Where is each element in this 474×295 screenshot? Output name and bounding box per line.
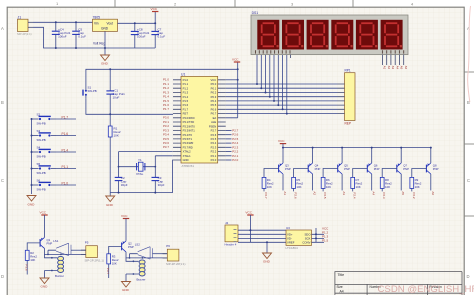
- zone letters right: [467, 26, 471, 279]
- svg-text:P0.5: P0.5: [211, 103, 217, 107]
- svg-text:P3.0/RXD: P3.0/RXD: [183, 116, 195, 120]
- svg-text:P1.7: P1.7: [62, 116, 69, 120]
- svg-text:Vout: Vout: [107, 22, 113, 26]
- wire P0.3 bus: [226, 96, 338, 98]
- svg-text:P0.3: P0.3: [211, 95, 217, 99]
- svg-text:P3.6/WR: P3.6/WR: [183, 141, 194, 145]
- svg-text:4: 4: [411, 1, 414, 6]
- svg-text:P1.1: P1.1: [62, 165, 69, 169]
- svg-text:10uF: 10uF: [113, 96, 120, 100]
- svg-text:SW-PB: SW-PB: [88, 89, 97, 93]
- net label P2.0 right of U1: [226, 158, 239, 162]
- net label P2.2 right of U1: [226, 150, 239, 154]
- transistor Q2: [122, 241, 134, 252]
- svg-text:P2.2: P2.2: [412, 192, 416, 199]
- power port VCC transistor rail: [278, 139, 286, 147]
- svg-text:P3.5/T1: P3.5/T1: [183, 137, 193, 141]
- svg-text:P2.3: P2.3: [382, 192, 386, 199]
- svg-text:7805: 7805: [93, 15, 101, 19]
- svg-text:P5: P5: [85, 241, 89, 245]
- buzzer capsule LS1: [45, 254, 65, 278]
- svg-text:P0.1: P0.1: [211, 86, 217, 90]
- svg-text:D: D: [1, 274, 4, 279]
- svg-text:C: C: [1, 178, 4, 183]
- wires header to U3: [238, 230, 286, 242]
- transistor rail wire: [283, 147, 431, 149]
- svg-text:J1: J1: [18, 15, 22, 19]
- svg-text:AT89C51: AT89C51: [182, 164, 195, 168]
- capacitor C4: [52, 21, 71, 49]
- ground symbol U3: [263, 253, 272, 259]
- zone tick right A/B: [464, 71, 474, 73]
- svg-text:XTAL1: XTAL1: [183, 154, 192, 158]
- zone tick right B/C: [464, 143, 474, 145]
- svg-text:EA: EA: [213, 116, 217, 120]
- transistor Q4: [308, 147, 320, 174]
- svg-text:SW-PB: SW-PB: [37, 187, 46, 191]
- resistor R4 base: [262, 169, 279, 192]
- wire display pin 7 drop: [282, 55, 284, 110]
- svg-text:P2.7: P2.7: [211, 129, 217, 133]
- svg-text:30pF: 30pF: [158, 183, 165, 187]
- push button S4: [31, 145, 57, 158]
- display digit pin 4 stub and net label: [395, 55, 399, 70]
- svg-text:Y1: Y1: [138, 158, 142, 162]
- svg-text:GND: GND: [106, 203, 114, 207]
- wire display pin 6 drop: [277, 55, 279, 106]
- ground rail under output caps: [105, 47, 155, 49]
- wire J1 pin2 to ground rail: [33, 27, 105, 48]
- digit cell 2: [282, 20, 304, 50]
- svg-text:P1.2: P1.2: [183, 86, 189, 90]
- svg-text:Volt Reg: Volt Reg: [93, 42, 105, 46]
- wire display pin 5 drop: [273, 55, 275, 101]
- display digit pin 1 stub and net label: [382, 55, 386, 70]
- power port VCC buzzer block 2: [121, 214, 129, 241]
- svg-text:10K: 10K: [385, 185, 390, 189]
- svg-text:S3: S3: [37, 129, 41, 133]
- svg-text:P3.7: P3.7: [163, 145, 169, 149]
- svg-text:P0.0: P0.0: [211, 82, 217, 86]
- svg-text:PNP: PNP: [374, 167, 380, 171]
- svg-text:P0.7: P0.7: [211, 112, 217, 116]
- transistor Q8: [426, 147, 438, 174]
- ground symbol crystal: [109, 193, 111, 196]
- wire P0.7 bus: [226, 113, 338, 115]
- wire and net label P1.0: [56, 182, 76, 186]
- 7-segment display DS1: [251, 11, 408, 55]
- U3 right wires: [312, 228, 325, 242]
- svg-text:VCC: VCC: [245, 211, 252, 215]
- digit cell 4: [331, 20, 353, 50]
- svg-text:1: 1: [56, 1, 59, 6]
- svg-text:U1: U1: [181, 72, 185, 76]
- wire P0.5 bus: [226, 104, 338, 106]
- capacitor C3: [152, 167, 165, 193]
- wire U1 VCC pin to VCC port: [226, 79, 238, 81]
- svg-text:P3.7: P3.7: [106, 268, 110, 275]
- crystal ground rail: [110, 192, 172, 194]
- svg-text:10K: 10K: [114, 134, 119, 138]
- svg-text:A2: A2: [313, 191, 317, 195]
- push button S3: [31, 129, 57, 142]
- svg-text:RST: RST: [183, 112, 189, 116]
- svg-text:RP1: RP1: [345, 69, 351, 73]
- zone numbers top: [56, 1, 414, 6]
- buttons ground bus: [31, 119, 33, 194]
- wire display pin 8 drop: [286, 55, 288, 114]
- svg-text:30pF: 30pF: [121, 183, 128, 187]
- svg-text:PSEN: PSEN: [209, 124, 216, 128]
- display bottom pin labels left group: [256, 50, 291, 53]
- power port VCC regulator output: [151, 7, 159, 23]
- svg-text:P1.0: P1.0: [62, 182, 69, 186]
- svg-text:VCC: VCC: [278, 139, 285, 143]
- svg-text:Buzzer: Buzzer: [55, 274, 64, 278]
- svg-text:P3.6: P3.6: [24, 264, 28, 271]
- wire P0.0 bus: [226, 83, 338, 85]
- svg-text:SIP-2P(1:1): SIP-2P(1:1): [17, 32, 32, 36]
- digit cell 5: [356, 20, 378, 50]
- svg-text:REP: REP: [345, 121, 352, 125]
- svg-text:A: A: [1, 26, 4, 31]
- svg-text:P1.5: P1.5: [183, 99, 189, 103]
- zone letters left: [1, 26, 4, 279]
- svg-text:D: D: [467, 274, 470, 279]
- svg-text:P2.0: P2.0: [211, 158, 217, 162]
- capacitor C1: [106, 69, 125, 114]
- microcontroller U1: [173, 72, 226, 168]
- display digit pin 3 stub and net label: [391, 55, 395, 70]
- resistor R5 base: [292, 169, 309, 192]
- svg-text:P0.6: P0.6: [211, 107, 217, 111]
- svg-text:XTAL2: XTAL2: [183, 150, 192, 154]
- watermark right edge curve: [468, 6, 471, 102]
- wire P0.6 bus: [226, 108, 338, 110]
- svg-text:P0.4: P0.4: [211, 99, 217, 103]
- MCU GND pin wire: [172, 160, 174, 193]
- svg-text:PNP: PNP: [47, 242, 53, 246]
- connector P5: [81, 241, 104, 263]
- connector J4 header: [225, 221, 239, 246]
- svg-text:Title: Title: [338, 273, 345, 277]
- collector wire and net label A4: [372, 174, 376, 195]
- resistor R8 base: [380, 169, 397, 192]
- svg-text:P1.5: P1.5: [322, 239, 329, 243]
- svg-text:GND: GND: [101, 27, 109, 31]
- svg-text:A1: A1: [283, 191, 287, 195]
- wire P0.4 bus: [226, 100, 338, 102]
- svg-text:P1.7: P1.7: [163, 107, 169, 111]
- svg-text:P2.2: P2.2: [211, 150, 217, 154]
- svg-text:CONV: CONV: [302, 240, 310, 244]
- digit cell 6: [381, 20, 403, 50]
- svg-text:VCC: VCC: [322, 227, 329, 231]
- display digit pin 2 stub and net label: [387, 55, 391, 70]
- svg-text:A4: A4: [340, 290, 344, 294]
- resistor R7 base: [351, 169, 368, 192]
- VCC distribution rail: [86, 69, 238, 87]
- svg-text:P3.2/INT0: P3.2/INT0: [183, 124, 196, 128]
- svg-text:SW-PB: SW-PB: [37, 121, 46, 125]
- wire display pin 3 drop: [265, 55, 267, 93]
- svg-text:0.1uF: 0.1uF: [158, 35, 166, 39]
- svg-text:P2.6: P2.6: [294, 192, 298, 199]
- svg-text:VCC: VCC: [232, 58, 239, 62]
- zone tick right C/D: [464, 215, 474, 217]
- svg-text:P2.0: P2.0: [232, 158, 238, 162]
- ground symbol regulator: [101, 55, 110, 61]
- regulator ground stem: [104, 31, 106, 54]
- svg-text:P2.5: P2.5: [323, 192, 327, 199]
- svg-text:SW-PB: SW-PB: [37, 138, 46, 142]
- svg-text:10K: 10K: [326, 185, 331, 189]
- ground symbol buzzer block 2: [122, 282, 131, 288]
- ADC U3 LTC1864: [286, 226, 312, 250]
- digit cell 3: [307, 20, 329, 50]
- svg-text:LTC1864: LTC1864: [286, 246, 298, 250]
- display bottom pin labels right group: [382, 50, 403, 53]
- wire P0.2 bus: [226, 92, 338, 94]
- svg-text:P2.4: P2.4: [353, 192, 357, 199]
- wire and net label P1.4: [56, 149, 76, 153]
- svg-text:S5: S5: [37, 162, 41, 166]
- crystal Y1: [136, 158, 145, 176]
- svg-text:PNP: PNP: [403, 167, 409, 171]
- display digit pin 6 stub and net label: [404, 55, 408, 70]
- resistor R3 base: [107, 246, 122, 278]
- display digit pin 5 stub and net label: [399, 55, 403, 70]
- svg-text:A1: A1: [383, 66, 387, 70]
- svg-text:10K: 10K: [267, 185, 272, 189]
- svg-text:Header 4: Header 4: [225, 242, 237, 246]
- svg-text:GND: GND: [183, 158, 189, 162]
- collector wire and net label A1: [283, 174, 287, 195]
- svg-text:P2.6: P2.6: [211, 133, 217, 137]
- svg-text:0.1uF: 0.1uF: [78, 35, 86, 39]
- wire display pin 2 drop: [260, 55, 262, 89]
- svg-text:S2: S2: [37, 112, 41, 116]
- ground symbol buttons: [27, 196, 36, 202]
- collector wire and net label A2: [313, 174, 317, 195]
- wire P0.1 bus: [226, 87, 338, 89]
- zone tick top 3/4: [352, 0, 354, 7]
- svg-text:SIP-2P:2P(1:1): SIP-2P:2P(1:1): [166, 262, 185, 266]
- svg-text:C: C: [467, 178, 470, 183]
- wire and net label P1.1: [56, 165, 76, 169]
- wire EA pin to VCC vertical: [226, 62, 238, 118]
- svg-text:S6: S6: [37, 178, 41, 182]
- svg-text:P3.4/T0: P3.4/T0: [183, 133, 193, 137]
- wire J1 to regulator input: [33, 21, 93, 23]
- svg-text:A6: A6: [404, 66, 408, 70]
- svg-text:2: 2: [174, 1, 177, 6]
- svg-text:A4: A4: [372, 191, 376, 195]
- net label P2.7 right of U1: [226, 128, 239, 132]
- svg-text:P1.6: P1.6: [62, 132, 69, 136]
- svg-text:A3: A3: [342, 191, 346, 195]
- svg-text:P3.7/RD: P3.7/RD: [183, 145, 193, 149]
- svg-text:A2: A2: [387, 66, 391, 70]
- wire RST row: [86, 99, 173, 115]
- svg-text:A5: A5: [401, 191, 405, 195]
- push button S5: [31, 162, 57, 175]
- svg-text:SIP-2P:2P(1:1): SIP-2P:2P(1:1): [85, 259, 104, 263]
- svg-text:P3.1/TXD: P3.1/TXD: [183, 120, 195, 124]
- transistor Q1: [40, 237, 52, 248]
- power port VCC at U3: [245, 211, 253, 243]
- svg-text:P1.4: P1.4: [62, 149, 69, 153]
- push button S6: [31, 178, 57, 191]
- wire display pin 4 drop: [269, 55, 271, 97]
- crystal circuit wires: [119, 152, 173, 167]
- svg-text:PNP: PNP: [285, 167, 291, 171]
- wire display pin 1 drop: [256, 55, 258, 84]
- connector P6: [163, 244, 186, 266]
- svg-text:P1.6: P1.6: [183, 103, 189, 107]
- resistor R2 base: [25, 243, 40, 275]
- collector node wires: [126, 252, 167, 258]
- svg-text:VCC: VCC: [40, 211, 47, 215]
- voltage regulator U2 7805: [93, 15, 118, 45]
- connector J1: [17, 15, 33, 35]
- svg-text:VCC: VCC: [211, 78, 217, 82]
- svg-text:10K: 10K: [415, 185, 420, 189]
- RP1 pin stubs: [338, 84, 345, 114]
- svg-text:LS2: LS2: [135, 242, 141, 246]
- svg-text:ALE: ALE: [211, 120, 216, 124]
- svg-text:Vin: Vin: [94, 22, 99, 26]
- resistor R6 base: [321, 169, 338, 192]
- buzzer capsule LS2: [126, 258, 146, 282]
- svg-text:GND: GND: [41, 285, 49, 289]
- svg-text:GND: GND: [28, 203, 36, 207]
- svg-text:GND: GND: [263, 260, 271, 264]
- svg-text:P2.5: P2.5: [211, 137, 217, 141]
- digit cell 1: [257, 20, 279, 50]
- svg-text:10K: 10K: [356, 185, 361, 189]
- display left extra pin stubs: [290, 55, 292, 58]
- transistor Q5: [338, 147, 350, 174]
- transistor Q6: [367, 147, 379, 174]
- svg-text:10K: 10K: [296, 185, 301, 189]
- svg-text:VREF: VREF: [287, 240, 295, 244]
- svg-text:A4: A4: [395, 66, 399, 70]
- capacitor C8: [131, 22, 150, 48]
- push button S2: [31, 112, 57, 125]
- svg-text:VCC: VCC: [121, 214, 128, 218]
- svg-text:A3: A3: [391, 66, 395, 70]
- svg-text:Buzzer: Buzzer: [137, 278, 146, 282]
- svg-text:P2.4: P2.4: [211, 141, 217, 145]
- svg-text:P0.2: P0.2: [211, 91, 217, 95]
- svg-text:3: 3: [291, 1, 294, 6]
- svg-text:P1.0: P1.0: [183, 78, 189, 82]
- net label P2.6 right of U1: [226, 133, 239, 137]
- svg-text:XTAL: XTAL: [136, 172, 144, 176]
- svg-text:DS1: DS1: [252, 11, 259, 15]
- resistor R1: [108, 114, 121, 192]
- svg-text:P1.7: P1.7: [183, 107, 189, 111]
- zone tick top 1/2: [114, 0, 116, 7]
- svg-text:SW-PB: SW-PB: [37, 154, 46, 158]
- resistor network RP1: [345, 69, 356, 121]
- svg-text:100uF: 100uF: [137, 35, 146, 39]
- net label P2.5 right of U1: [226, 137, 239, 141]
- net label P2.4 right of U1: [226, 141, 239, 145]
- svg-text:A5: A5: [400, 66, 404, 70]
- net label P2.3 right of U1: [226, 145, 239, 149]
- speaker symbol: [56, 243, 86, 255]
- collector wire and net label A6: [431, 174, 435, 195]
- svg-text:PNP: PNP: [433, 167, 439, 171]
- svg-text:PNP: PNP: [315, 167, 321, 171]
- svg-text:A6: A6: [431, 191, 435, 195]
- svg-text:Size: Size: [337, 285, 343, 289]
- svg-text:B: B: [1, 100, 4, 105]
- resistor R9 base: [410, 169, 427, 192]
- transistor Q7: [397, 147, 409, 174]
- capacitor C2: [115, 167, 128, 193]
- svg-text:P6: P6: [166, 244, 170, 248]
- transistor Q3: [279, 147, 291, 174]
- net label P2.1 right of U1: [226, 154, 239, 158]
- svg-text:10K: 10K: [30, 258, 35, 262]
- svg-text:P2.3: P2.3: [211, 145, 217, 149]
- svg-text:PNP: PNP: [344, 167, 350, 171]
- svg-text:GND: GND: [122, 288, 130, 292]
- svg-text:J4: J4: [225, 221, 229, 225]
- wire regulator output: [118, 22, 156, 24]
- svg-text:100uF: 100uF: [58, 35, 67, 39]
- ground stem U3: [266, 242, 268, 253]
- title block: [335, 272, 462, 295]
- push button S1 (reset): [83, 86, 97, 99]
- svg-text:CSDN @ENGLISH_HRZ: CSDN @ENGLISH_HRZ: [378, 284, 474, 295]
- capacitor C5: [72, 21, 86, 49]
- svg-text:P3.3/INT1: P3.3/INT1: [183, 129, 196, 133]
- svg-text:P1.4: P1.4: [183, 95, 189, 99]
- svg-text:S4: S4: [37, 145, 41, 149]
- capacitor C7: [151, 22, 165, 48]
- svg-text:P2.1: P2.1: [211, 154, 217, 158]
- svg-text:P2.7: P2.7: [264, 192, 268, 199]
- speaker symbol: [138, 247, 168, 259]
- collector wire and net label A3: [342, 174, 346, 195]
- wire and net label P1.6: [56, 132, 76, 136]
- power port VCC buzzer block 1: [40, 211, 48, 238]
- power port VCC at U1: [232, 58, 240, 63]
- svg-text:U3: U3: [286, 226, 290, 230]
- svg-text:VCC: VCC: [151, 7, 158, 11]
- ground symbol buzzer block 1: [40, 278, 49, 284]
- svg-text:GND: GND: [101, 62, 109, 66]
- svg-text:SW-PB: SW-PB: [37, 171, 46, 175]
- svg-text:LS1: LS1: [53, 239, 59, 243]
- svg-text:PNP: PNP: [128, 245, 134, 249]
- svg-text:10K: 10K: [112, 261, 117, 265]
- zone tick top 2/3: [234, 0, 236, 7]
- svg-text:P1.3: P1.3: [183, 91, 189, 95]
- collector node wires: [45, 248, 86, 254]
- wire and net label P1.7: [56, 116, 76, 120]
- svg-text:P1.1: P1.1: [183, 82, 189, 86]
- collector wire and net label A5: [401, 174, 405, 195]
